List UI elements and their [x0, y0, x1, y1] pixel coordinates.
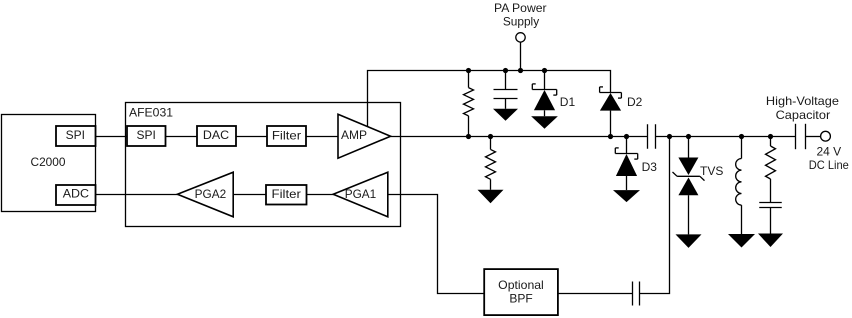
- svg-text:TVS: TVS: [700, 164, 723, 178]
- svg-text:D2: D2: [627, 95, 643, 109]
- svg-text:PGA2: PGA2: [195, 187, 227, 201]
- svg-text:AMP: AMP: [341, 128, 367, 142]
- svg-text:Capacitor: Capacitor: [776, 108, 831, 122]
- svg-text:Filter: Filter: [272, 187, 301, 201]
- svg-text:AFE031: AFE031: [129, 106, 173, 120]
- svg-text:D3: D3: [642, 160, 658, 174]
- svg-text:D1: D1: [560, 95, 576, 109]
- svg-text:PGA1: PGA1: [345, 187, 377, 201]
- svg-text:SPI: SPI: [66, 128, 85, 142]
- svg-text:Filter: Filter: [272, 128, 301, 142]
- svg-text:High-Voltage: High-Voltage: [766, 94, 839, 108]
- svg-text:C2000: C2000: [31, 155, 66, 169]
- svg-text:BPF: BPF: [509, 291, 532, 305]
- svg-text:PA Power: PA Power: [494, 1, 547, 15]
- svg-text:DAC: DAC: [203, 128, 230, 142]
- svg-text:SPI: SPI: [137, 128, 156, 142]
- svg-text:DC Line: DC Line: [809, 158, 849, 172]
- svg-text:ADC: ADC: [63, 187, 90, 201]
- svg-text:Optional: Optional: [498, 278, 544, 292]
- svg-text:Supply: Supply: [503, 15, 539, 29]
- svg-text:24 V: 24 V: [816, 144, 841, 158]
